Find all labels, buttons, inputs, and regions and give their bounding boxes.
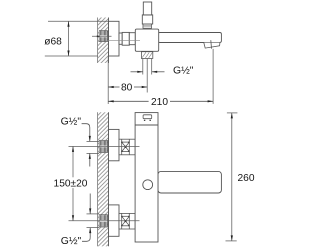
upper escutcheon (front view) bbox=[109, 129, 120, 160]
dim 80 line bbox=[108, 86, 147, 88]
svg-text:G½": G½" bbox=[61, 117, 82, 128]
svg-text:ø68: ø68 bbox=[44, 36, 62, 47]
svg-text:80: 80 bbox=[121, 83, 133, 94]
dim 210 line bbox=[108, 100, 213, 102]
handle stem bbox=[143, 2, 151, 15]
handle block bbox=[142, 15, 152, 24]
wall (top view) bbox=[98, 18, 109, 64]
dim 260 ticks bbox=[227, 112, 238, 114]
dim 260 line bbox=[231, 113, 233, 241]
escutcheon flange (top view, o68) bbox=[109, 21, 120, 56]
aerator under spout tip bbox=[204, 40, 220, 49]
union ring 2 bbox=[122, 32, 129, 45]
dim 80 / 210 left extension (wall face) bbox=[107, 57, 109, 104]
shower outlet thread (below body) bbox=[141, 52, 152, 59]
svg-text:260: 260 bbox=[238, 173, 255, 184]
mixer body (front view) bbox=[135, 113, 158, 242]
dim 210 right extension (aerator center) bbox=[212, 49, 214, 104]
dim G1/2 (top view) extension lines bbox=[142, 59, 144, 75]
diverter circle bbox=[143, 180, 153, 190]
upper valve assembly with X symbol bbox=[119, 139, 135, 155]
lower centerline bbox=[69, 220, 140, 222]
logo plate bbox=[143, 115, 152, 121]
collar bbox=[129, 33, 135, 45]
mixer body (top view) bbox=[135, 29, 158, 51]
lower valve assembly with X symbol bbox=[119, 213, 135, 229]
G1/2 upper: ticks and arrows bbox=[82, 124, 99, 167]
lower escutcheon (front view) bbox=[109, 205, 120, 236]
svg-text:G½": G½" bbox=[173, 66, 194, 77]
svg-text:150±20: 150±20 bbox=[54, 178, 88, 189]
lower inlet fitting (front view) bbox=[99, 215, 107, 227]
wall (front view) bbox=[98, 112, 109, 246]
dim o68 extension bottom bbox=[45, 55, 98, 57]
body centerline B bbox=[107, 40, 140, 42]
dim G1/2 arrows bbox=[131, 71, 165, 73]
spout (front view) bbox=[158, 171, 221, 193]
upper centerline bbox=[69, 145, 140, 147]
wall inlet fitting (top view, threaded) bbox=[99, 31, 107, 42]
dim 150+-20 line bbox=[72, 146, 74, 220]
cartridge neck thread bbox=[143, 24, 152, 28]
svg-text:210: 210 bbox=[151, 97, 168, 108]
G1/2 lower: ticks and arrows bbox=[82, 194, 99, 242]
outlet centerline extension bbox=[146, 59, 148, 93]
dim o68 extension top bbox=[48, 20, 109, 22]
cap divider line bbox=[135, 124, 158, 126]
spout (top view) bbox=[158, 33, 221, 43]
upper inlet fitting (front view) bbox=[99, 140, 107, 152]
svg-text:G½": G½" bbox=[61, 236, 82, 247]
label 150+-20 bbox=[52, 177, 90, 189]
inlet centerline A with arrow bbox=[92, 35, 112, 37]
dim o68 line with arrows bbox=[67, 21, 69, 56]
union ring 1 bbox=[119, 33, 122, 44]
